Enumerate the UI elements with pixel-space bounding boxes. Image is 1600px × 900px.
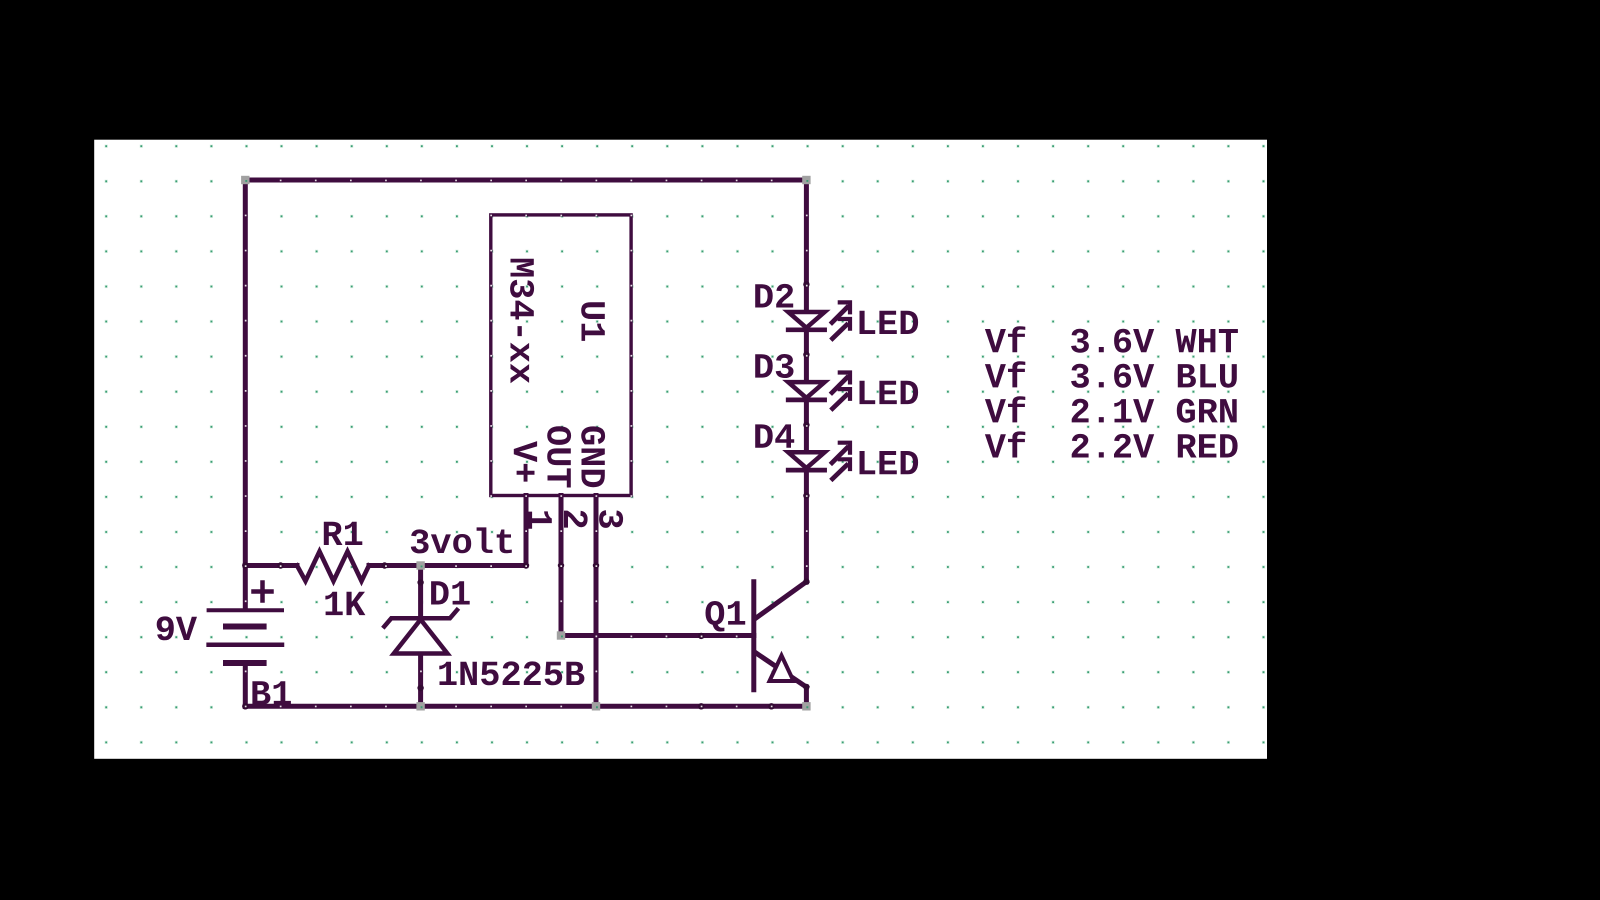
- node square emitter bottom: [802, 702, 810, 710]
- junction bottom rail vertex 2: [768, 703, 774, 709]
- battery plus sign: [254, 583, 272, 601]
- node square top-left corner: [241, 176, 249, 184]
- wire battery to R1: [245, 563, 297, 568]
- LED D3: [788, 382, 824, 400]
- junction pin 1 corner: [523, 562, 529, 568]
- junction collector: [803, 579, 809, 585]
- label D1: [431, 581, 470, 604]
- junction base wire vertex: [698, 633, 704, 639]
- node square pin3 bottom: [592, 702, 600, 710]
- label B1: [252, 681, 291, 704]
- junction D1 anode lead: [417, 685, 423, 691]
- LED D4 emission arrows: [832, 443, 850, 479]
- label R1: [324, 522, 363, 545]
- wire LED chain: [804, 180, 809, 582]
- label D3: [755, 354, 793, 378]
- label LED for D3: [860, 381, 919, 404]
- pin label OUT: [547, 426, 571, 487]
- node 3volt square: [416, 561, 424, 569]
- wire pin 1 stub: [524, 496, 529, 566]
- schematic canvas: [94, 140, 1267, 759]
- junction emitter corner: [803, 684, 809, 690]
- pin number 3: [599, 510, 623, 528]
- wire base of Q1: [561, 633, 754, 638]
- wire emitter drop: [804, 687, 809, 706]
- junction battery bottom: [242, 703, 248, 709]
- note Vf 2.1V GRN: [985, 396, 1237, 422]
- junction D1 cathode lead: [417, 579, 423, 585]
- label LED for D2: [860, 311, 919, 334]
- junction LED chain top: [803, 281, 809, 287]
- junction pin 3 vertex: [593, 562, 599, 568]
- label D2: [755, 284, 793, 308]
- node square pin2 corner: [557, 631, 565, 639]
- IC U1 box: [491, 215, 631, 496]
- label 9V: [157, 616, 197, 640]
- wire 3volt to pin 1: [421, 563, 526, 568]
- label Q1: [706, 601, 746, 632]
- node square D1 bottom: [416, 702, 424, 710]
- note Vf 3.6V BLU: [985, 361, 1237, 388]
- node label 3volt: [411, 527, 512, 553]
- label 1N5225B: [439, 661, 584, 685]
- transistor Q1: [754, 582, 807, 690]
- label M34-xx: [510, 259, 534, 384]
- note Vf 3.6V WHT: [985, 326, 1238, 353]
- wire D1 anode lead: [418, 654, 423, 707]
- junction D2-D3: [803, 351, 809, 357]
- pin label V+: [514, 441, 537, 482]
- wire top rail: [245, 178, 806, 183]
- label LED for D4: [860, 451, 919, 474]
- wire pin 3 stub: [594, 496, 599, 707]
- wire R1 to node 3volt: [369, 563, 421, 568]
- pin label GND: [581, 426, 605, 487]
- pin number 1: [529, 511, 552, 528]
- LED D2: [788, 312, 824, 330]
- junction pin 2 vertex: [558, 562, 564, 568]
- label U1: [581, 302, 605, 341]
- battery B1: [209, 610, 282, 663]
- node square top-right corner: [802, 176, 810, 184]
- pin number 2: [564, 511, 588, 528]
- zener diode D1: [384, 566, 457, 654]
- label D4: [755, 424, 794, 447]
- wire pin 2 stub: [559, 496, 564, 636]
- wire left rail: [243, 180, 248, 566]
- wire bottom rail: [245, 704, 806, 709]
- note Vf 2.2V RED: [985, 431, 1238, 457]
- junction bottom rail vertex: [698, 703, 704, 709]
- label 1K: [325, 592, 365, 615]
- LED D4: [788, 452, 824, 470]
- LED D2 emission arrows: [832, 302, 850, 338]
- LED D3 emission arrows: [832, 373, 850, 409]
- wire battery top lead: [243, 566, 248, 609]
- junction R1 right lead: [381, 562, 387, 568]
- junction D4 bottom: [803, 492, 809, 498]
- resistor R1: [297, 552, 369, 582]
- junction battery-R1 corner: [242, 562, 248, 568]
- junction D3-D4: [803, 422, 809, 428]
- junction R1 left lead: [277, 562, 283, 568]
- wire battery bottom lead: [243, 663, 248, 706]
